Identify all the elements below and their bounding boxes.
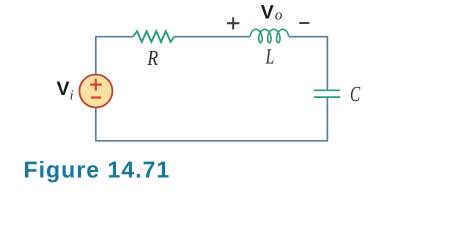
wire top-middle: resistor to inductor [174, 36, 250, 38]
svg-text:C: C [350, 82, 361, 106]
svg-text:o: o [275, 7, 283, 23]
source plus sign [90, 79, 102, 91]
svg-text:V: V [261, 2, 274, 24]
wire top-right: inductor to capacitor top plate [289, 37, 327, 90]
svg-text:V: V [57, 78, 70, 100]
wire top-left: source top to resistor [96, 37, 134, 75]
capacitor C plates [314, 90, 340, 97]
plus sign of Vo [227, 17, 240, 29]
wire bottom-right: capacitor bottom plate down, across, up to source bottom [96, 98, 328, 141]
inductor L coil [250, 29, 289, 42]
voltage source Vi circle [79, 75, 112, 108]
svg-text:i: i [70, 88, 74, 103]
svg-text:R: R [147, 46, 159, 70]
source minus sign [91, 96, 101, 98]
minus sign of Vo [299, 22, 309, 24]
svg-text:Figure 14.71: Figure 14.71 [24, 157, 171, 183]
svg-text:L: L [265, 44, 274, 68]
resistor R zigzag [133, 31, 174, 42]
